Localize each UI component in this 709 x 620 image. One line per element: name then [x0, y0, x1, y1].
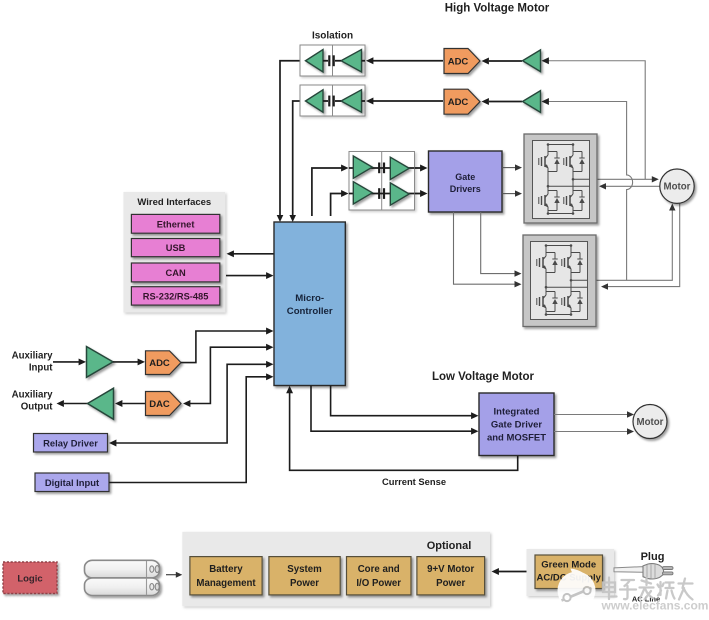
wire: amplifier to ADC2: [482, 98, 523, 105]
wire: amplifier to auxiliary output: [57, 400, 88, 407]
capacitor in isolation box 1: [323, 55, 365, 66]
wire: micro-controller to gate isolation bottom: [331, 190, 349, 216]
panel: Wired Interfaces: [123, 192, 225, 313]
block: Integrated Gate Driver and MOSFET: [479, 393, 554, 456]
panel: Optional power section: [182, 532, 490, 606]
svg-text:Power: Power: [436, 578, 465, 589]
block: Ethernet: [131, 214, 219, 233]
block: Digital Input: [35, 473, 109, 492]
amplifier pair in isolation box 2: [306, 90, 362, 113]
wire: ADC1 to isolation1: [366, 57, 443, 64]
wire: isolation1 output to micro-controller: [277, 61, 300, 222]
svg-text:Motor: Motor: [637, 417, 664, 428]
wire: bridge1 feed to motor with crossover hop: [590, 176, 659, 182]
svg-text:DAC: DAC: [149, 399, 170, 410]
svg-text:USB: USB: [166, 243, 186, 253]
svg-text:Green Mode: Green Mode: [541, 560, 596, 571]
wire: current sense tap 2 to amplifier: [542, 98, 633, 280]
svg-text:Isolation: Isolation: [312, 31, 353, 42]
svg-text:CAN: CAN: [166, 268, 186, 278]
svg-text:Motor: Motor: [664, 182, 691, 193]
wire: integrated gate driver to motor2 bottom: [554, 428, 634, 434]
ADC 1: [444, 49, 480, 74]
svg-text:Wired Interfaces: Wired Interfaces: [137, 197, 211, 208]
svg-text:Digital Input: Digital Input: [45, 477, 99, 488]
wire: integrated gate driver to motor2 top: [554, 411, 634, 417]
svg-text:ADC: ADC: [448, 97, 469, 108]
wire: ADC2 to isolation2: [366, 98, 443, 105]
wire: gate drivers to bridge2 bottom: [454, 212, 522, 287]
ADC (auxiliary): [146, 351, 182, 375]
wire: aux ADC to micro-controller: [181, 328, 274, 363]
wire: auxiliary input to amplifier: [53, 358, 86, 365]
label: Auxiliary Output: [12, 390, 54, 413]
wire: digital input to micro-controller: [109, 373, 274, 482]
panel: green mode supply: [527, 549, 615, 596]
svg-text:Plug: Plug: [641, 551, 665, 563]
svg-text:and MOSFET: and MOSFET: [487, 433, 546, 444]
wire: amplifier to ADC1: [482, 58, 523, 65]
svg-text:Drivers: Drivers: [450, 184, 481, 194]
svg-text:Management: Management: [196, 578, 256, 589]
block: RS-232/RS-485: [131, 287, 219, 305]
svg-text:System: System: [287, 564, 322, 575]
svg-text:Power: Power: [290, 578, 319, 589]
wire: current sense return to micro-controller: [286, 386, 518, 471]
gate isolation row 2 amplifiers and capacitor: [349, 182, 415, 206]
svg-text:RS-232/RS-485: RS-232/RS-485: [143, 292, 209, 302]
wire: battery to optional power section: [166, 572, 182, 578]
wire: current sense tap 1 to amplifier: [542, 57, 646, 179]
svg-text:Ethernet: Ethernet: [157, 219, 195, 229]
svg-text:High Voltage Motor: High Voltage Motor: [445, 3, 550, 15]
isolation box 2: [300, 85, 365, 116]
gate drivers block U1: [429, 151, 503, 212]
svg-text:I/O Power: I/O Power: [356, 578, 401, 589]
wire: CAN to micro-controller: [226, 272, 274, 279]
wire: amplifier to aux ADC: [113, 358, 145, 365]
wire: DAC to amplifier: [115, 400, 146, 407]
svg-text:Auxiliary: Auxiliary: [12, 351, 54, 362]
svg-text:Low Voltage Motor: Low Voltage Motor: [432, 371, 535, 383]
DAC (auxiliary): [146, 392, 182, 416]
gate isolation row 1 amplifiers and capacitor: [349, 156, 415, 180]
IGBT bridge module 2: [523, 235, 596, 327]
block: USB: [131, 239, 219, 257]
gate isolation box (2x2): [349, 152, 415, 211]
svg-text:Auxiliary: Auxiliary: [12, 390, 54, 401]
motor M1 (high voltage): [660, 169, 694, 203]
svg-text:Logic: Logic: [17, 574, 42, 585]
block: 9+V Motor Power: [417, 557, 485, 595]
block: Relay Driver: [34, 434, 108, 453]
amplifier pair in isolation box 1: [306, 50, 362, 73]
svg-text:www.elecfans.com: www.elecfans.com: [601, 599, 709, 613]
svg-text:Current Sense: Current Sense: [382, 476, 446, 487]
plug icon with cord and prongs: [614, 564, 673, 579]
svg-text:Integrated: Integrated: [494, 407, 540, 418]
svg-text:ADC: ADC: [448, 57, 469, 68]
wire: gate isolation to gate drivers top: [409, 165, 428, 172]
battery pack (two cells): [85, 560, 160, 595]
svg-text:9+V Motor: 9+V Motor: [427, 564, 474, 575]
wire: isolation2 output to micro-controller: [289, 101, 300, 222]
block: Battery Management: [190, 557, 262, 595]
svg-text:Gate Driver: Gate Driver: [491, 420, 543, 431]
capacitor in isolation box 2: [323, 96, 365, 107]
amplifier: current sense 2: [523, 91, 541, 113]
micro-controller block: [274, 222, 345, 386]
wire: micro-controller to relay driver: [109, 361, 274, 447]
wire: motor return to bridge1: [599, 183, 660, 189]
svg-text:Battery: Battery: [209, 564, 243, 575]
block: CAN: [131, 263, 219, 282]
wire: gate drivers to bridge1 top: [502, 164, 522, 170]
wire: micro-controller to DAC: [183, 344, 274, 407]
block: Logic: [3, 562, 57, 594]
svg-text:Output: Output: [21, 402, 54, 413]
wire: green mode supply to optional section: [492, 568, 527, 575]
wire: micro-controller to integrated gate driver top: [331, 386, 479, 420]
block: Core and I/O Power: [347, 557, 412, 595]
wire: gate drivers to bridge2 top: [481, 212, 522, 277]
wire: motor bottom return to bridge2: [601, 204, 680, 290]
svg-text:Core and: Core and: [358, 564, 400, 575]
block: System Power: [269, 557, 340, 595]
motor M2 (low voltage): [633, 405, 667, 439]
wire: gate drivers to bridge1 bottom: [502, 190, 522, 196]
amplifier: auxiliary input: [87, 347, 114, 378]
wire: micro-controller to integrated gate driver bottom: [311, 386, 479, 435]
svg-text:Gate: Gate: [455, 172, 475, 182]
watermark: chinese brand characters: [603, 578, 693, 600]
amplifier: current sense 1: [523, 50, 541, 72]
isolation box 1: [300, 45, 365, 76]
IGBT bridge module 1: [524, 134, 597, 223]
svg-text:Relay Driver: Relay Driver: [43, 437, 98, 448]
svg-text:ADC: ADC: [149, 358, 170, 369]
wire: gate isolation to gate drivers bottom: [409, 190, 428, 197]
wire: micro-controller to USB: [227, 250, 275, 257]
svg-text:Controller: Controller: [287, 306, 333, 317]
label: Auxiliary Input: [12, 351, 54, 374]
watermark: elecfans logo circle: [558, 569, 596, 610]
ADC 2: [444, 89, 480, 114]
svg-text:Optional: Optional: [427, 540, 472, 552]
wire: bridge2 feed to motor bottom: [590, 204, 676, 281]
svg-text:Micro-: Micro-: [295, 293, 324, 304]
amplifier: auxiliary output: [88, 388, 114, 419]
block: Green Mode AC/DC Supply: [535, 555, 603, 589]
svg-text:Input: Input: [29, 363, 53, 374]
wire: micro-controller to gate isolation top: [312, 165, 349, 216]
